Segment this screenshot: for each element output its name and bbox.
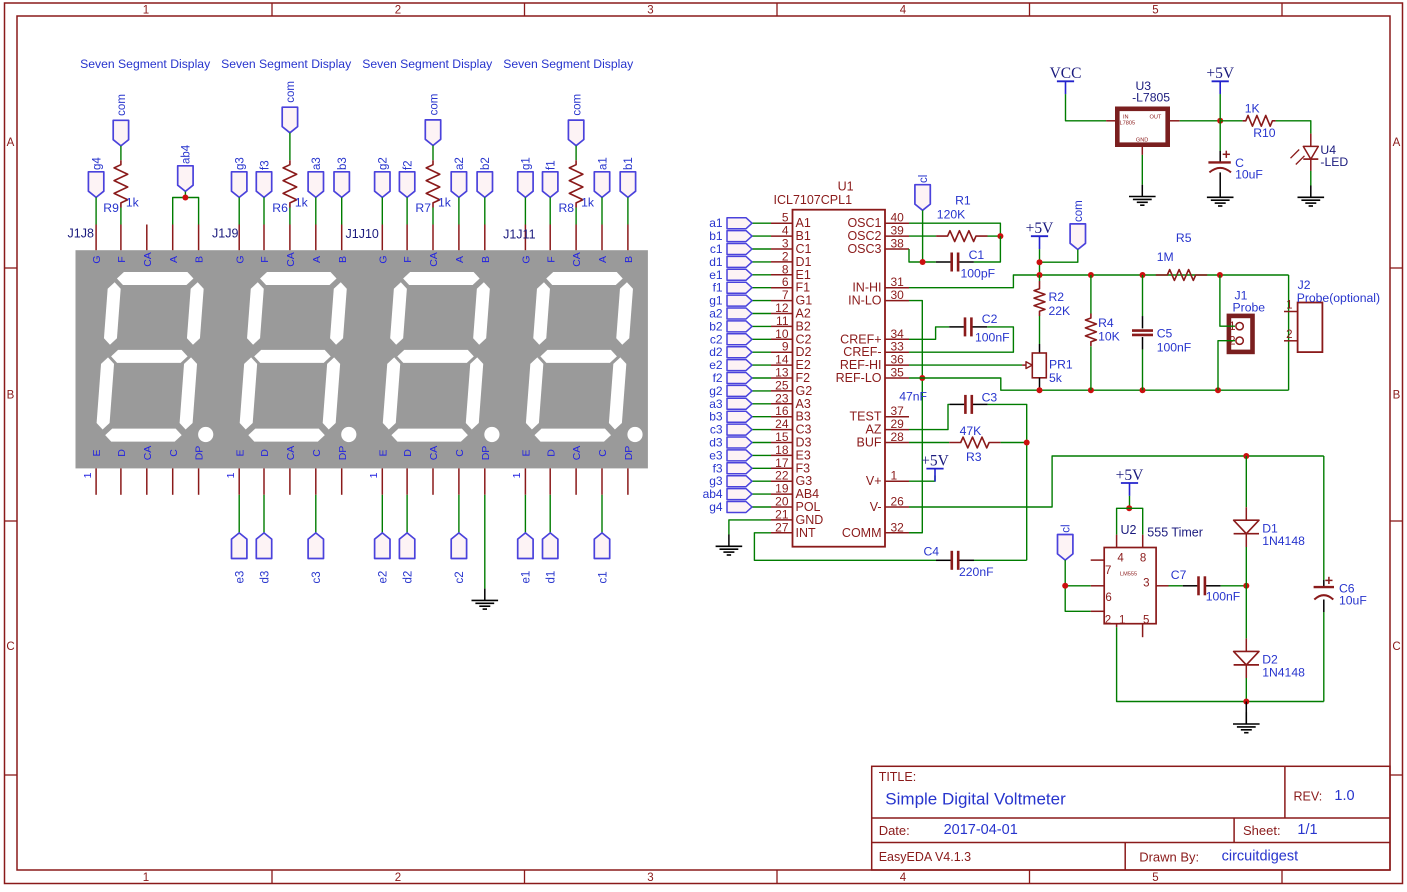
svg-text:3: 3	[647, 872, 653, 884]
display 2 bottom pin labels E D CA C DP	[234, 446, 348, 461]
junction bottom rail R4	[1088, 387, 1094, 393]
svg-text:e2: e2	[709, 358, 723, 372]
U2 pin 2	[1091, 610, 1105, 612]
svg-text:J1J11: J1J11	[503, 228, 535, 242]
svg-text:C: C	[311, 449, 323, 457]
svg-text:a2: a2	[709, 307, 723, 321]
svg-text:C: C	[168, 449, 180, 457]
wire CREF+ to C2	[909, 327, 949, 339]
svg-text:28: 28	[891, 430, 905, 444]
net port ab4	[178, 166, 193, 192]
wire net e2 to U1	[752, 364, 771, 366]
connector J2 Probe(optional) body	[1298, 303, 1323, 353]
svg-text:Seven Segment Display: Seven Segment Display	[80, 57, 211, 71]
svg-text:ab4: ab4	[181, 144, 193, 164]
svg-text:1k: 1k	[438, 195, 452, 209]
display 4 top pins	[525, 225, 628, 251]
U1 left pin 20 POL	[771, 506, 793, 508]
seven segment digit 2	[240, 272, 357, 442]
display 2 top pins	[239, 225, 342, 251]
wire ab4 to A and B pins	[184, 192, 186, 198]
svg-text:ab4: ab4	[703, 487, 723, 501]
svg-text:100pF: 100pF	[961, 267, 996, 281]
wire J1 pin2 to bottom rail	[1218, 341, 1235, 391]
svg-text:F2: F2	[796, 371, 811, 385]
wire g4 to pin	[95, 197, 97, 224]
svg-text:13: 13	[775, 366, 789, 380]
U1 right pin 32 COMM	[885, 532, 909, 534]
resistor R3 47K	[949, 437, 1000, 448]
svg-text:A: A	[168, 256, 180, 263]
wire a1 to pin	[601, 197, 603, 224]
wire net g3 to U1	[752, 480, 771, 482]
svg-text:30: 30	[891, 288, 905, 302]
U1 left pin 19 AB4	[771, 493, 793, 495]
svg-text:G: G	[377, 255, 389, 263]
svg-text:D: D	[116, 449, 128, 457]
junction rail C5	[1140, 272, 1146, 278]
wire R2 to PR1	[1039, 316, 1041, 344]
svg-text:C: C	[6, 641, 14, 653]
svg-text:com: com	[116, 94, 128, 116]
junction bottom rail ground	[1243, 699, 1249, 705]
svg-text:C3: C3	[982, 391, 998, 405]
capacitor C4 220nF	[936, 559, 951, 561]
wire f2 to pin	[406, 197, 408, 224]
wire C2 to CREF-	[909, 327, 1013, 352]
svg-text:6: 6	[1105, 592, 1111, 604]
svg-text:C1: C1	[969, 248, 985, 262]
svg-text:J2: J2	[1298, 278, 1311, 292]
svg-text:R6: R6	[272, 201, 288, 215]
wire U1 GND to ground	[729, 520, 771, 535]
U3 OUT pin	[1170, 120, 1180, 122]
display 4 bottom pins	[525, 468, 628, 494]
svg-text:36: 36	[891, 353, 905, 367]
svg-text:-LED: -LED	[1320, 155, 1348, 169]
U1 left pin 14 E2	[771, 364, 793, 366]
resistor R6 1k	[283, 160, 297, 207]
svg-text:1: 1	[225, 472, 237, 478]
wire R3 to C3 vertical	[1001, 442, 1027, 444]
svg-text:DP: DP	[194, 446, 206, 461]
U1 left pin 25 G2	[771, 390, 793, 392]
wire PR1 to bottom rail	[1039, 378, 1041, 390]
wire net f3 to U1	[752, 467, 771, 469]
wire rail to J1 pin1	[1220, 275, 1235, 326]
svg-text:F: F	[545, 256, 557, 262]
svg-text:L7805: L7805	[1120, 121, 1136, 127]
U1 right pin 34 CREF+	[885, 338, 909, 340]
resistor R4 10K	[1090, 275, 1092, 314]
capacitor C2 100nF	[949, 326, 964, 328]
net port a1	[594, 172, 609, 198]
svg-text:22K: 22K	[1049, 304, 1071, 318]
net flag e3	[727, 450, 752, 461]
resistor R9 1k	[114, 160, 128, 207]
svg-text:c3: c3	[311, 571, 323, 583]
svg-text:3: 3	[1143, 578, 1149, 590]
svg-text:E: E	[377, 449, 389, 456]
svg-text:10: 10	[775, 327, 789, 341]
svg-text:R3: R3	[966, 450, 982, 464]
svg-text:27: 27	[775, 520, 789, 534]
svg-text:g1: g1	[709, 294, 723, 308]
ground at LED	[1310, 186, 1312, 198]
svg-text:9: 9	[782, 340, 789, 354]
capacitor C1 100pF	[936, 261, 951, 263]
svg-text:c2: c2	[454, 571, 466, 583]
svg-text:B2: B2	[796, 319, 811, 333]
svg-text:REV:: REV:	[1294, 790, 1323, 804]
net flag g2	[727, 385, 752, 396]
svg-text:E: E	[521, 449, 533, 456]
wire net d2 to U1	[752, 351, 771, 353]
U1 left pin 15 D3	[771, 442, 793, 444]
svg-text:F3: F3	[796, 461, 811, 475]
U1 left pin 10 C2	[771, 338, 793, 340]
resistor R7 1k	[426, 160, 440, 207]
U1 left pin 27 INT	[771, 532, 793, 534]
wire U2 pin1 to bottom rail	[1117, 627, 1324, 701]
svg-text:g2: g2	[709, 384, 723, 398]
svg-text:a3: a3	[311, 157, 323, 170]
svg-text:circuitdigest: circuitdigest	[1222, 848, 1299, 864]
svg-text:Probe(optional): Probe(optional)	[1297, 291, 1380, 305]
wire IN-LO down to REF-LO and COMM	[909, 301, 922, 533]
svg-text:U2: U2	[1121, 523, 1137, 537]
svg-text:32: 32	[891, 520, 905, 534]
wire net a1 to U1	[752, 222, 771, 224]
seven segment digit 4	[526, 272, 643, 442]
display 2 bottom pins	[239, 468, 342, 494]
svg-text:2: 2	[1229, 336, 1235, 348]
svg-text:b3: b3	[337, 157, 349, 170]
U2 pin 3	[1156, 585, 1168, 587]
svg-text:3: 3	[782, 237, 789, 251]
svg-text:C: C	[597, 449, 609, 457]
svg-text:e3: e3	[709, 448, 723, 462]
wire INT to C4	[754, 533, 936, 561]
svg-text:7: 7	[1105, 565, 1111, 577]
svg-text:22: 22	[775, 469, 789, 483]
U1 left pin 13 F2	[771, 377, 793, 379]
svg-text:cl: cl	[918, 175, 930, 183]
svg-text:c2: c2	[710, 332, 723, 346]
svg-text:com: com	[571, 94, 583, 116]
U1 left pin 21 GND	[771, 519, 793, 521]
net flag a3	[727, 398, 752, 409]
wire AZ to C3	[909, 404, 950, 429]
U1 left pin 23 A3	[771, 403, 793, 405]
wire g2 to pin	[381, 197, 383, 224]
svg-text:CA: CA	[571, 446, 583, 461]
svg-text:5k: 5k	[1049, 371, 1063, 385]
bottom rail horizontal	[1040, 389, 1289, 391]
svg-text:TEST: TEST	[850, 410, 882, 424]
svg-text:1: 1	[1286, 300, 1292, 312]
svg-text:E3: E3	[796, 448, 811, 462]
svg-text:1: 1	[511, 472, 523, 478]
svg-text:Simple Digital Voltmeter: Simple Digital Voltmeter	[885, 789, 1066, 808]
net port a2	[451, 172, 466, 198]
U1 left pin 5 A1	[771, 222, 793, 224]
wire a2 to pin	[458, 197, 460, 224]
junction bottom rail J1	[1215, 387, 1221, 393]
net flag c3	[727, 424, 752, 435]
title block frame	[872, 766, 1390, 870]
svg-text:V+: V+	[866, 474, 882, 488]
wire R10 to LED	[1276, 121, 1311, 134]
svg-text:e1: e1	[521, 571, 533, 584]
net port g1	[518, 172, 533, 198]
svg-text:IN-LO: IN-LO	[848, 294, 882, 308]
wire U3 OUT to +5V node	[1180, 120, 1221, 122]
seven segment digit 1	[97, 272, 214, 442]
net port c3	[308, 533, 323, 559]
svg-text:2: 2	[782, 249, 789, 263]
net port f1	[543, 172, 558, 198]
border column ticks bottom	[272, 870, 1282, 884]
svg-text:15: 15	[775, 430, 789, 444]
svg-text:R5: R5	[1176, 231, 1192, 245]
wire resistor R8 to pin	[575, 208, 577, 225]
svg-text:16: 16	[775, 404, 789, 418]
junction top rail D1	[1243, 453, 1249, 459]
svg-text:a1: a1	[597, 157, 609, 170]
wire +5V flag to node	[1219, 94, 1221, 121]
wire cl down to OSC3 node	[922, 210, 924, 262]
svg-text:A: A	[311, 256, 323, 263]
net port c2	[451, 533, 466, 559]
svg-text:e3: e3	[235, 571, 247, 584]
svg-text:G3: G3	[796, 474, 813, 488]
wire pin to net port d2	[406, 495, 408, 533]
svg-text:d1: d1	[709, 255, 723, 269]
svg-text:f1: f1	[713, 281, 723, 295]
svg-text:6: 6	[782, 275, 789, 289]
wire net c3 to U1	[752, 429, 771, 431]
svg-text:1: 1	[1229, 321, 1235, 333]
wire net a2 to U1	[752, 313, 771, 315]
U2 pin 4	[1116, 535, 1118, 548]
svg-text:f2: f2	[402, 160, 414, 170]
border row ticks right	[1390, 268, 1403, 775]
svg-text:Sheet:: Sheet:	[1243, 823, 1281, 838]
wire a3 to pin	[315, 197, 317, 224]
U1 right pin 29 AZ	[885, 429, 909, 431]
svg-text:12: 12	[775, 301, 789, 315]
svg-text:B: B	[623, 256, 635, 263]
border column ticks top	[272, 3, 1282, 16]
capacitor C3 47nF	[950, 403, 965, 405]
svg-text:Drawn By:: Drawn By:	[1139, 850, 1199, 865]
junction IN-LO REF-LO	[919, 375, 925, 381]
U1 right pin 30 IN-LO	[885, 300, 909, 302]
display 4 bottom pin labels E D CA C DP	[521, 446, 636, 461]
wire b3 to pin	[341, 197, 343, 224]
svg-text:REF-LO: REF-LO	[836, 371, 882, 385]
svg-text:D: D	[402, 449, 414, 457]
svg-text:AB4: AB4	[796, 487, 820, 501]
svg-text:B: B	[7, 390, 15, 402]
svg-text:E: E	[234, 449, 246, 456]
svg-text:1N4148: 1N4148	[1262, 534, 1305, 548]
svg-text:100nF: 100nF	[1206, 589, 1241, 603]
svg-text:35: 35	[891, 366, 905, 380]
svg-text:f3: f3	[713, 461, 723, 475]
svg-text:CA: CA	[285, 252, 297, 267]
net flag ab4	[727, 489, 752, 500]
U2 pin 6	[1091, 585, 1105, 587]
wire C1 to OSC2 node	[974, 236, 1001, 262]
wire com to resistor R7	[432, 146, 434, 161]
net port b3	[334, 172, 349, 198]
svg-text:B: B	[1393, 390, 1401, 402]
net flag g1	[727, 295, 752, 306]
wire +5V node to R10	[1220, 120, 1242, 122]
J2 pin 1	[1284, 311, 1298, 313]
svg-text:GND: GND	[796, 513, 824, 527]
svg-text:A: A	[454, 256, 466, 263]
capacitor C6 10uF (polarized)	[1314, 456, 1334, 702]
net port cl at 555	[1058, 535, 1073, 561]
svg-text:R10: R10	[1253, 126, 1276, 140]
net flag g3	[727, 476, 752, 487]
svg-text:C4: C4	[924, 545, 940, 559]
wire com to resistor R6	[289, 133, 291, 160]
net flag a2	[727, 308, 752, 319]
wire REF-HI to PR1 wiper	[909, 364, 1022, 366]
svg-text:+5V: +5V	[1116, 467, 1144, 484]
svg-text:g4: g4	[91, 157, 103, 170]
wire pin to net port d1	[549, 495, 551, 533]
svg-text:D: D	[259, 449, 271, 457]
wire com to resistor R8	[575, 146, 577, 161]
net flag f1	[727, 282, 752, 293]
svg-text:G1: G1	[796, 294, 813, 308]
net port g3	[232, 172, 247, 198]
U2 pin 5 stub	[1142, 624, 1144, 638]
svg-text:24: 24	[775, 417, 789, 431]
wire OSC2 to R1	[909, 235, 936, 237]
wire +5V to rail	[1039, 249, 1041, 275]
svg-text:CA: CA	[571, 252, 583, 267]
svg-text:Seven Segment Display: Seven Segment Display	[221, 57, 352, 71]
wire 555 ground stem	[1245, 702, 1247, 725]
net flag e2	[727, 360, 752, 371]
svg-text:8: 8	[1140, 553, 1146, 565]
net flag f3	[727, 463, 752, 474]
net flag f2	[727, 373, 752, 384]
svg-text:IN-HI: IN-HI	[852, 281, 881, 295]
svg-text:R2: R2	[1049, 290, 1065, 304]
net port g2	[375, 172, 390, 198]
junction U2 supply	[1126, 505, 1132, 511]
svg-text:b1: b1	[623, 157, 635, 170]
svg-text:OSC3: OSC3	[847, 242, 881, 256]
display 1 bottom pin labels E D CA C DP	[91, 446, 206, 461]
svg-text:f2: f2	[713, 371, 723, 385]
ground at display 3 DP	[484, 589, 486, 601]
svg-text:26: 26	[891, 495, 905, 509]
junction ab4	[182, 195, 188, 201]
svg-text:G2: G2	[796, 384, 813, 398]
svg-text:14: 14	[775, 353, 789, 367]
wire net ab4 to U1	[752, 493, 771, 495]
svg-text:25: 25	[775, 378, 789, 392]
resistor R1 120K	[936, 231, 987, 242]
svg-text:D3: D3	[796, 436, 812, 450]
wire pin to net port c3	[315, 495, 317, 533]
svg-text:com: com	[285, 81, 297, 103]
U1 left pin 8 E1	[771, 274, 793, 276]
U1 left pin 12 A2	[771, 313, 793, 315]
svg-text:CA: CA	[428, 446, 440, 461]
svg-text:1k: 1k	[581, 195, 595, 209]
wire pin to net port e1	[524, 495, 526, 533]
svg-text:CA: CA	[428, 252, 440, 267]
net port e1	[518, 533, 533, 559]
net flag e1	[727, 269, 752, 280]
display 4 top pin labels G F CA A B	[521, 252, 636, 267]
svg-text:CA: CA	[285, 446, 297, 461]
svg-text:8: 8	[782, 262, 789, 276]
net flag d2	[727, 347, 752, 358]
svg-text:A3: A3	[796, 397, 811, 411]
svg-text:G: G	[521, 255, 533, 263]
svg-text:Probe: Probe	[1233, 301, 1266, 315]
svg-text:C2: C2	[796, 332, 812, 346]
net flag d1	[727, 256, 752, 267]
display 3 top pins	[382, 225, 485, 251]
svg-text:1.0: 1.0	[1334, 788, 1354, 804]
resistor R2 22K	[1039, 275, 1041, 281]
resistor R5 1M	[1156, 270, 1207, 281]
net flag d3	[727, 437, 752, 448]
wire resistor R7 to pin	[432, 208, 434, 225]
wire C7 to diode node	[1221, 585, 1247, 587]
U1 left pin 2 D1	[771, 261, 793, 263]
border row ticks left	[5, 268, 18, 775]
wire OSC1 to right vertical	[909, 223, 1000, 236]
svg-text:com: com	[428, 94, 440, 116]
wire com to resistor R9	[120, 146, 122, 160]
svg-text:d2: d2	[709, 345, 723, 359]
U1 right pin 35 REF-LO	[885, 377, 909, 379]
net port f2	[399, 172, 414, 198]
U1 right pin 40 OSC1	[885, 222, 909, 224]
net flag b1	[727, 231, 752, 242]
wire net b3 to U1	[752, 416, 771, 418]
svg-text:c3: c3	[710, 423, 723, 437]
junction com +5V	[1037, 259, 1043, 265]
svg-text:A: A	[597, 256, 609, 263]
wire COMM	[909, 532, 922, 534]
svg-text:C: C	[454, 449, 466, 457]
junction bottom rail PR1	[1037, 387, 1043, 393]
svg-text:2: 2	[1286, 329, 1292, 341]
svg-text:PR1: PR1	[1049, 357, 1073, 371]
svg-text:120K: 120K	[937, 208, 965, 222]
U1 right pin 1 V+	[885, 480, 909, 482]
wire U2 pin3 to C7	[1169, 585, 1183, 587]
U1 right pin 38 OSC3	[885, 248, 909, 250]
svg-text:4: 4	[900, 5, 907, 17]
net port e2	[375, 533, 390, 559]
net port c1	[594, 533, 609, 559]
svg-text:1K: 1K	[1245, 101, 1260, 115]
